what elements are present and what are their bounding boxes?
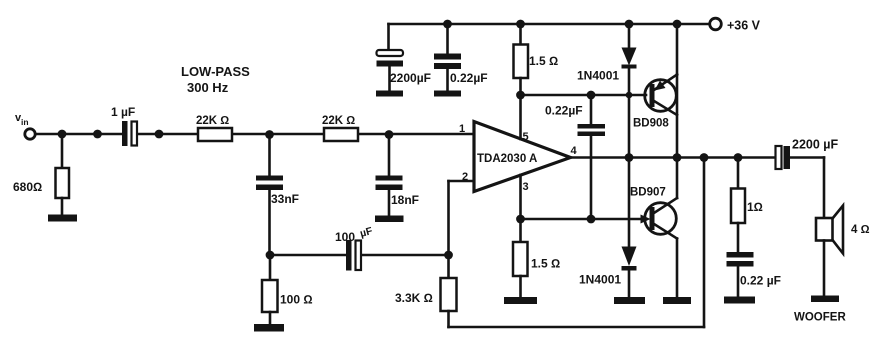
- capacitor 33nF: [268, 135, 271, 176]
- diode 1N4001 upper: [628, 24, 631, 47]
- wire speaker to ground: [823, 241, 826, 296]
- op-amp U1 TDA2030A triangle: [474, 122, 571, 192]
- capacitor 18nF: [388, 135, 391, 176]
- svg-text:LOW-PASS: LOW-PASS: [181, 64, 250, 79]
- node dot fb1: [266, 251, 275, 260]
- wire diode to output: [628, 95, 631, 158]
- svg-text:+36 V: +36 V: [727, 19, 761, 33]
- node dot out2: [673, 153, 682, 162]
- svg-text:0.22 µF: 0.22 µF: [740, 274, 781, 288]
- svg-text:33nF: 33nF: [271, 192, 299, 206]
- node dot out4: [734, 153, 743, 162]
- svg-text:3.3K Ω: 3.3K Ω: [395, 291, 433, 305]
- svg-text:1.5 Ω: 1.5 Ω: [529, 54, 558, 68]
- node junction dot A2: [93, 130, 102, 139]
- node vin input terminal: [25, 129, 35, 139]
- wire pin3: [519, 175, 522, 219]
- svg-text:100: 100: [335, 230, 355, 244]
- wire +36V rail: [389, 23, 709, 26]
- resistor 3.3K: [447, 255, 450, 278]
- svg-text:1.5 Ω: 1.5 Ω: [531, 257, 560, 271]
- svg-text:1Ω: 1Ω: [747, 200, 763, 214]
- svg-text:BD907: BD907: [630, 187, 666, 199]
- wire feedback up to output: [703, 158, 706, 328]
- ground under BD907 collector: [663, 297, 691, 304]
- svg-text:in: in: [21, 117, 29, 127]
- svg-text:680Ω: 680Ω: [13, 180, 42, 194]
- wire BD907 base line: [521, 218, 642, 221]
- node dot c2: [587, 215, 596, 224]
- node junction dot A3: [155, 130, 164, 139]
- ground under 18nF: [375, 216, 404, 223]
- wire BD908 base line: [521, 94, 647, 97]
- node junction filter2: [385, 130, 394, 139]
- capacitor 0.22uF mid: [590, 95, 593, 124]
- svg-text:0.22µF: 0.22µF: [545, 104, 583, 118]
- resistor R1 22K box: [198, 128, 232, 141]
- node junction filter1: [265, 130, 274, 139]
- svg-text:2200 µF: 2200 µF: [792, 138, 838, 152]
- resistor R2 22K box: [324, 128, 358, 141]
- transistor Q2 BD907: [645, 203, 677, 235]
- svg-text:100 Ω: 100 Ω: [280, 293, 313, 307]
- node +36V terminal: [710, 18, 722, 30]
- node dot c1: [516, 215, 525, 224]
- node junction dot A1: [58, 130, 67, 139]
- resistor 1.5R lower: [519, 219, 522, 242]
- ground under 1.5R lower: [504, 297, 537, 304]
- node rail dot r2: [516, 20, 525, 29]
- node dot b2: [587, 91, 596, 100]
- node dot fb2: [444, 251, 453, 260]
- svg-text:5: 5: [523, 131, 529, 143]
- resistor 680R vertical: [61, 134, 64, 168]
- svg-text:0.22µF: 0.22µF: [450, 71, 488, 85]
- svg-text:22K Ω: 22K Ω: [322, 115, 355, 127]
- diode 1N4001 lower: [628, 158, 631, 247]
- wire pin2 down to feedback node: [447, 181, 450, 255]
- svg-text:BD908: BD908: [633, 118, 669, 130]
- ground under 1N4001 lower: [614, 297, 645, 304]
- svg-text:4: 4: [571, 145, 578, 157]
- node dot b3: [626, 92, 633, 99]
- speaker 4R woofer: [816, 218, 833, 241]
- node dot out3: [700, 153, 709, 162]
- svg-text:1N4001: 1N4001: [579, 273, 621, 287]
- wire output after cap: [790, 156, 824, 159]
- svg-text:300 Hz: 300 Hz: [187, 80, 229, 95]
- ground under 0.22uF supply: [434, 91, 461, 97]
- ground under speaker: [811, 296, 839, 303]
- node rail dot r1: [443, 20, 452, 29]
- svg-text:µF: µF: [359, 225, 375, 240]
- svg-text:18nF: 18nF: [391, 193, 419, 207]
- node dot b1: [516, 91, 525, 100]
- ground under 680R: [48, 215, 77, 222]
- svg-text:1: 1: [459, 123, 465, 135]
- svg-text:1 µF: 1 µF: [111, 105, 135, 119]
- wire main input line left: [36, 133, 124, 136]
- svg-text:4 Ω: 4 Ω: [851, 224, 870, 236]
- capacitor C1 1uF electrolytic: [122, 121, 128, 146]
- node dot out1: [625, 153, 634, 162]
- capacitor 2200uF supply: [387, 24, 390, 50]
- svg-text:3: 3: [523, 181, 529, 193]
- capacitor 0.22uF zobel: [727, 252, 754, 258]
- capacitor 100uF feedback: [270, 254, 346, 257]
- wire feedback bottom: [449, 326, 705, 329]
- resistor 100R: [269, 255, 272, 280]
- transistor Q1 BD908: [645, 80, 677, 112]
- capacitor 2200uF output: [776, 146, 782, 169]
- svg-text:TDA2030 A: TDA2030 A: [477, 153, 537, 165]
- wire pin2 input: [449, 180, 475, 183]
- node rail dot r4: [673, 20, 682, 29]
- ground under 100R: [254, 324, 284, 332]
- node rail dot r3: [625, 20, 634, 29]
- svg-text:WOOFER: WOOFER: [794, 312, 846, 324]
- resistor 1.5R upper: [519, 24, 522, 45]
- wire output line: [570, 156, 776, 159]
- wire main input line right of C1: [137, 133, 475, 136]
- capacitor 0.22uF supply: [446, 24, 449, 54]
- wire output to speaker: [823, 158, 826, 219]
- svg-text:1N4001: 1N4001: [577, 69, 619, 83]
- resistor 1R zobel: [737, 158, 740, 189]
- svg-text:2200µF: 2200µF: [390, 71, 431, 85]
- ground under zobel: [724, 297, 755, 304]
- ground under 2200uF: [376, 91, 403, 97]
- wire pin5: [519, 95, 522, 139]
- svg-text:22K Ω: 22K Ω: [196, 115, 229, 127]
